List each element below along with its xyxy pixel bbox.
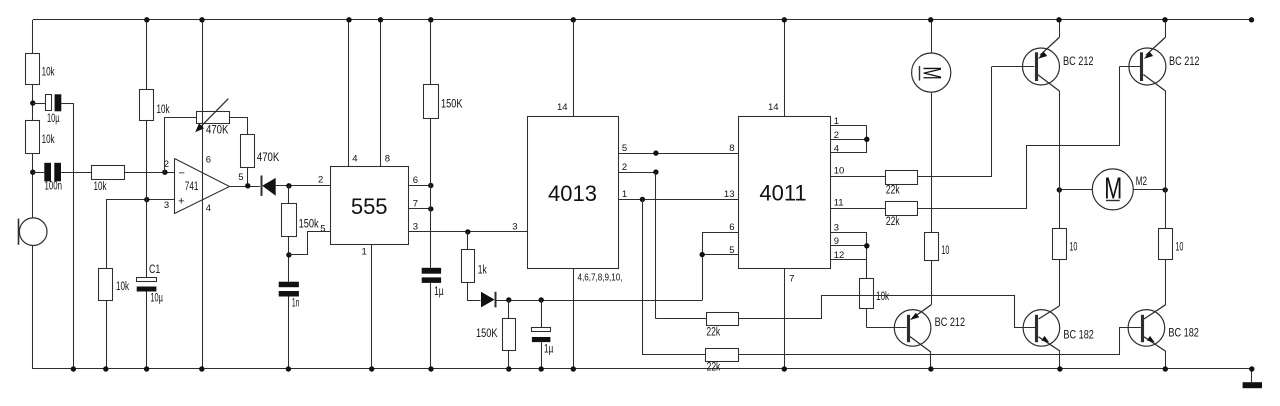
- svg-text:M: M: [917, 67, 945, 80]
- svg-text:22k: 22k: [707, 362, 721, 374]
- svg-text:150K: 150K: [441, 99, 463, 111]
- svg-text:4,6,7,8,9,10,: 4,6,7,8,9,10,: [578, 273, 623, 284]
- svg-text:10k: 10k: [157, 104, 170, 116]
- svg-text:100n: 100n: [45, 181, 63, 193]
- svg-text:4: 4: [834, 144, 839, 155]
- svg-text:2: 2: [318, 174, 323, 185]
- svg-text:10k: 10k: [876, 291, 889, 303]
- svg-text:10µ: 10µ: [47, 113, 60, 125]
- svg-text:1µ: 1µ: [544, 344, 554, 356]
- svg-text:10: 10: [1069, 242, 1077, 254]
- svg-text:9: 9: [834, 236, 839, 247]
- svg-text:555: 555: [351, 194, 388, 219]
- svg-text:14: 14: [768, 102, 779, 113]
- svg-text:10k: 10k: [94, 181, 107, 193]
- svg-text:11: 11: [834, 198, 844, 209]
- svg-text:10k: 10k: [42, 67, 55, 79]
- svg-text:12: 12: [834, 250, 845, 261]
- svg-text:6: 6: [729, 222, 734, 233]
- svg-text:7: 7: [413, 199, 418, 210]
- svg-text:2: 2: [834, 130, 839, 141]
- svg-text:6: 6: [206, 155, 211, 166]
- svg-text:7: 7: [789, 273, 794, 284]
- svg-text:C1: C1: [149, 264, 160, 276]
- svg-text:1: 1: [834, 116, 839, 127]
- svg-text:470K: 470K: [257, 152, 280, 164]
- svg-text:4: 4: [352, 153, 357, 164]
- svg-text:3: 3: [413, 222, 418, 233]
- svg-text:1µ: 1µ: [434, 286, 444, 298]
- svg-text:1k: 1k: [478, 264, 487, 276]
- svg-text:1n: 1n: [292, 298, 300, 310]
- svg-text:BC 212: BC 212: [1169, 56, 1200, 68]
- svg-text:10k: 10k: [116, 281, 129, 293]
- svg-text:22k: 22k: [886, 184, 900, 196]
- svg-text:741: 741: [185, 181, 199, 193]
- svg-text:10: 10: [834, 166, 845, 177]
- svg-text:22k: 22k: [886, 216, 900, 228]
- svg-text:BC 212: BC 212: [1063, 56, 1094, 68]
- svg-text:BC 182: BC 182: [1063, 330, 1094, 342]
- svg-text:10: 10: [1175, 242, 1183, 254]
- svg-text:BC 182: BC 182: [1168, 328, 1199, 340]
- svg-text:14: 14: [557, 102, 568, 113]
- svg-text:−: −: [179, 167, 185, 179]
- svg-text:5: 5: [622, 143, 627, 154]
- svg-text:M2: M2: [1136, 176, 1147, 188]
- svg-text:4013: 4013: [548, 181, 597, 206]
- svg-text:10k: 10k: [42, 134, 55, 146]
- svg-text:3: 3: [834, 223, 839, 234]
- svg-text:BC 212: BC 212: [935, 317, 966, 329]
- svg-text:5: 5: [729, 245, 734, 256]
- svg-text:1: 1: [362, 247, 367, 258]
- svg-text:5: 5: [320, 224, 325, 235]
- svg-text:3: 3: [164, 200, 169, 211]
- svg-text:4011: 4011: [759, 181, 806, 206]
- svg-text:470K: 470K: [206, 124, 229, 136]
- svg-text:+: +: [178, 195, 184, 207]
- svg-text:13: 13: [724, 189, 735, 200]
- svg-text:8: 8: [385, 153, 390, 164]
- svg-text:150K: 150K: [476, 328, 498, 340]
- svg-text:4: 4: [206, 203, 211, 214]
- svg-text:3: 3: [512, 222, 517, 233]
- svg-text:6: 6: [413, 175, 418, 186]
- svg-text:10: 10: [941, 245, 949, 257]
- svg-text:22k: 22k: [706, 327, 720, 339]
- svg-text:150k: 150k: [299, 218, 319, 230]
- svg-text:2: 2: [622, 162, 627, 173]
- svg-text:10µ: 10µ: [150, 293, 163, 305]
- svg-text:5: 5: [238, 172, 243, 183]
- svg-text:1: 1: [622, 189, 627, 200]
- svg-text:8: 8: [729, 143, 734, 154]
